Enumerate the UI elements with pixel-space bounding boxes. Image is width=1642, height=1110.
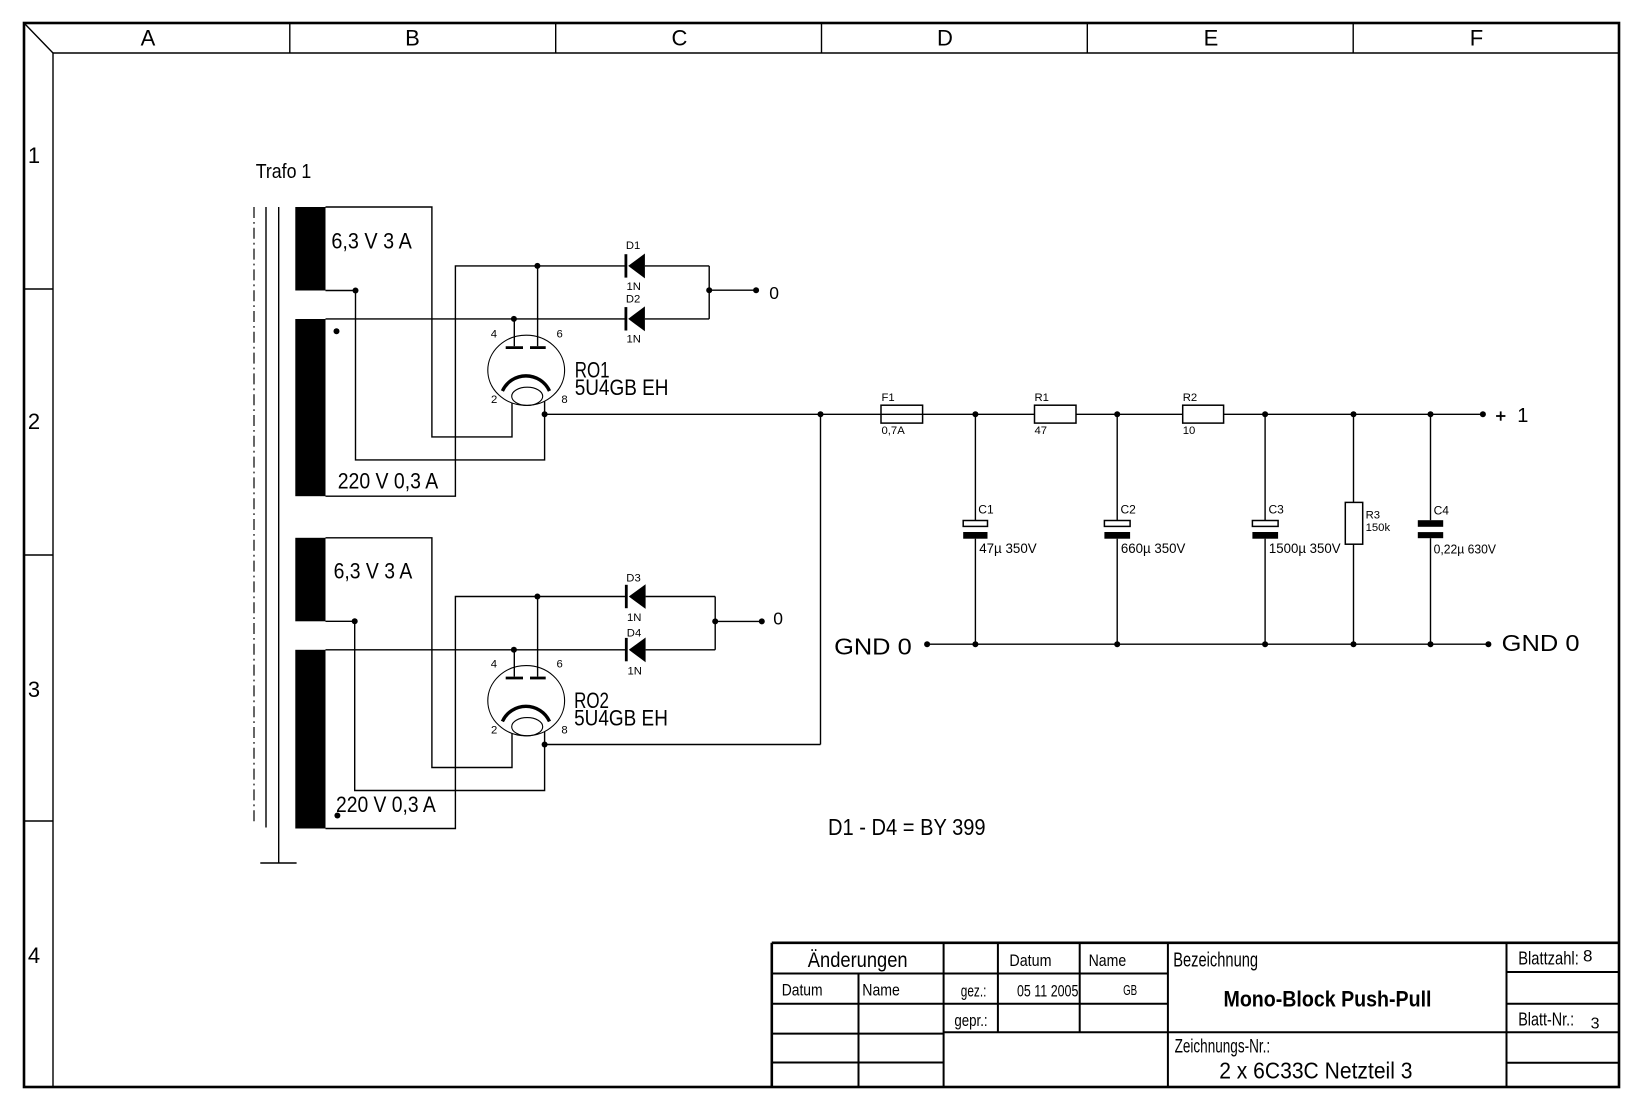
wire D3 anode to 0 bus (646, 596, 716, 598)
svg-text:gez.:: gez.: (961, 982, 987, 1001)
svg-text:220 V 0,3 A: 220 V 0,3 A (336, 792, 436, 817)
svg-text:1N: 1N (627, 612, 641, 624)
svg-text:6: 6 (557, 328, 563, 340)
svg-text:1: 1 (1517, 405, 1528, 427)
wire W3 bottom to tube2 pin 8 (355, 621, 545, 790)
svg-text:Name: Name (1089, 951, 1127, 970)
node pin4 junction (RO2) (511, 647, 517, 653)
svg-text:Name: Name (862, 981, 900, 1000)
resistor R2 10 (1183, 392, 1224, 437)
node gnd C2 (1114, 641, 1120, 647)
wire W1 bottom stub (326, 290, 356, 292)
svg-text:GND 0: GND 0 (1502, 630, 1580, 656)
winding W4 phase dot (334, 813, 340, 819)
wire 0 bus vertical (RO2) (714, 597, 716, 650)
wire W1 bottom to tube pin 8 (356, 291, 545, 460)
diode D4 (626, 628, 645, 678)
svg-text:3: 3 (1591, 1015, 1600, 1032)
wire W4 top to pin4/D4 (326, 649, 627, 651)
svg-text:2 x 6C33C Netzteil 3: 2 x 6C33C Netzteil 3 (1219, 1057, 1412, 1083)
node pin4 junction (511, 316, 517, 322)
transformer core line 2 (278, 207, 280, 863)
svg-text:47µ 350V: 47µ 350V (979, 540, 1037, 556)
fuse F1 0.7A (881, 392, 923, 437)
svg-text:8: 8 (561, 394, 567, 406)
node gnd C3 (1262, 641, 1268, 647)
svg-text:GB: GB (1123, 982, 1137, 999)
tube RO2 5U4GB (488, 659, 668, 737)
svg-text:8: 8 (561, 725, 567, 737)
svg-text:Mono-Block Push-Pull: Mono-Block Push-Pull (1224, 987, 1432, 1012)
svg-text:Datum: Datum (782, 981, 823, 1000)
svg-text:6,3 V 3 A: 6,3 V 3 A (331, 229, 412, 254)
svg-text:2: 2 (491, 394, 497, 406)
capacitor C2 660u 350V (1104, 414, 1186, 644)
svg-text:Blattzahl:: Blattzahl: (1518, 948, 1579, 968)
node rail C1 (972, 411, 978, 417)
terminal 0 (upper) (753, 287, 759, 293)
svg-text:GND 0: GND 0 (834, 634, 912, 660)
capacitor C3 1500u 350V (1252, 414, 1341, 644)
wire to terminal 0 (RO2) (715, 620, 762, 622)
node pin6 junction (RO2) (534, 594, 540, 600)
winding W2 220V 0.3A (295, 319, 438, 496)
svg-text:0,7A: 0,7A (882, 425, 906, 437)
diode D3 (626, 573, 645, 625)
svg-text:C1: C1 (978, 503, 994, 517)
winding W2 phase dot (334, 328, 340, 334)
svg-text:R1: R1 (1035, 392, 1049, 404)
node rail C3 (1262, 411, 1268, 417)
winding W3 6.3V 3A (295, 538, 412, 622)
wire pin 4 stub (513, 319, 515, 346)
terminal GND left (924, 641, 930, 647)
wire pin 6 stub (RO2) (537, 597, 539, 677)
svg-text:2: 2 (28, 409, 40, 434)
svg-text:C4: C4 (1434, 503, 1450, 517)
svg-text:R2: R2 (1183, 392, 1197, 404)
capacitor C4 0.22u 630V (1418, 414, 1497, 644)
svg-text:8: 8 (1583, 947, 1592, 966)
svg-text:Bezeichnung: Bezeichnung (1173, 949, 1258, 971)
svg-text:A: A (141, 26, 156, 51)
node W1 bottom (353, 288, 359, 294)
svg-text:1N: 1N (627, 334, 641, 346)
terminal GND right (1485, 641, 1491, 647)
wire 0 bus vertical (708, 266, 710, 319)
svg-text:10: 10 (1183, 425, 1196, 437)
diode D1 (626, 240, 645, 293)
svg-text:5U4GB EH: 5U4GB EH (574, 706, 668, 731)
svg-text:Zeichnungs-Nr.:: Zeichnungs-Nr.: (1175, 1036, 1271, 1057)
wire W3 bottom stub (326, 620, 355, 622)
winding W4 220V 0.3A (295, 650, 436, 829)
svg-text:C3: C3 (1269, 503, 1285, 517)
svg-text:D1: D1 (626, 240, 640, 252)
svg-text:D1 - D4 = BY 399: D1 - D4 = BY 399 (828, 814, 986, 840)
node 0 bus (RO2) (712, 618, 718, 624)
svg-text:Blatt-Nr.:: Blatt-Nr.: (1518, 1010, 1574, 1030)
svg-text:0: 0 (769, 283, 779, 303)
winding W1 6.3V 3A (295, 207, 412, 291)
resistor R1 47 (1035, 392, 1077, 437)
svg-text:D: D (937, 26, 953, 51)
svg-text:C2: C2 (1121, 503, 1137, 517)
wire W2 top to pin4/D2 (326, 318, 626, 320)
wire W1 top to tube pin 2 (326, 207, 513, 437)
title block texts (782, 947, 1600, 1084)
svg-text:E: E (1204, 26, 1219, 51)
svg-text:0,22µ 630V: 0,22µ 630V (1434, 541, 1497, 556)
svg-text:R3: R3 (1366, 510, 1380, 522)
svg-text:Datum: Datum (1009, 951, 1051, 970)
tube RO1 5U4GB (488, 328, 669, 406)
node 0 bus (706, 287, 712, 293)
GND rail (927, 643, 1488, 645)
svg-text:0: 0 (773, 608, 783, 628)
svg-text:3: 3 (28, 677, 40, 702)
svg-text:1500µ 350V: 1500µ 350V (1269, 540, 1341, 556)
node rail C4 (1428, 411, 1434, 417)
svg-text:4: 4 (491, 328, 497, 340)
svg-text:D4: D4 (627, 628, 641, 640)
svg-text:1N: 1N (627, 281, 641, 293)
svg-text:4: 4 (491, 659, 497, 671)
svg-text:660µ 350V: 660µ 350V (1121, 540, 1186, 556)
svg-text:47: 47 (1035, 425, 1048, 437)
svg-text:150k: 150k (1366, 522, 1391, 534)
node rail R3 (1351, 411, 1357, 417)
node rail C2 (1114, 411, 1120, 417)
wire pin 4 stub (RO2) (513, 650, 515, 677)
node pin6 junction (534, 263, 540, 269)
node tube2 pin8 output (542, 742, 548, 748)
svg-text:D2: D2 (626, 293, 640, 305)
svg-text:Änderungen: Änderungen (808, 949, 908, 972)
transformer core screen line (dash-dot) (253, 207, 255, 823)
node gnd C4 (1428, 641, 1434, 647)
terminal +1 (1480, 405, 1529, 427)
node rail RO2 riser (818, 411, 824, 417)
svg-text:F: F (1470, 26, 1483, 51)
svg-text:2: 2 (491, 724, 497, 736)
svg-text:05 11 2005: 05 11 2005 (1017, 981, 1078, 1000)
transformer core line 1 (265, 207, 267, 828)
wire W2 bottom (326, 266, 626, 496)
capacitor C1 47u 350V (963, 414, 1037, 644)
core earth bar (260, 862, 296, 864)
terminal 0 (lower) (759, 618, 765, 624)
wire W4 bottom (326, 597, 627, 829)
wire pin 6 stub (537, 266, 539, 346)
svg-text:C: C (672, 26, 688, 51)
svg-text:6,3 V 3 A: 6,3 V 3 A (334, 559, 413, 584)
wire D4 anode to 0 bus (646, 649, 716, 651)
node gnd R3 (1351, 641, 1357, 647)
svg-text:1: 1 (28, 143, 40, 168)
node tube1 pin8 output (542, 411, 548, 417)
svg-text:F1: F1 (882, 392, 895, 404)
diode D2 (626, 293, 645, 345)
main HT rail (545, 413, 1483, 415)
wire RO2 riser to main rail (820, 414, 822, 744)
svg-text:D3: D3 (626, 573, 640, 585)
wire W3 top to tube2 pin 2 (326, 538, 513, 768)
svg-text:gepr.:: gepr.: (954, 1011, 987, 1030)
node gnd C1 (972, 641, 978, 647)
wire D1 anode to 0 bus (645, 265, 709, 267)
svg-text:Trafo 1: Trafo 1 (256, 161, 312, 183)
svg-text:4: 4 (28, 943, 40, 968)
resistor R3 150k (1345, 414, 1390, 644)
wire to terminal 0 (709, 289, 756, 291)
wire D2 anode to 0 bus (645, 318, 709, 320)
title block frame (772, 943, 1619, 1087)
wire RO2 output rail (545, 744, 821, 746)
svg-text:1N: 1N (628, 666, 642, 678)
node W3 bottom (352, 618, 358, 624)
svg-text:220 V 0,3 A: 220 V 0,3 A (338, 469, 439, 494)
svg-text:5U4GB EH: 5U4GB EH (575, 375, 669, 400)
svg-text:B: B (405, 26, 420, 51)
svg-text:6: 6 (557, 659, 563, 671)
